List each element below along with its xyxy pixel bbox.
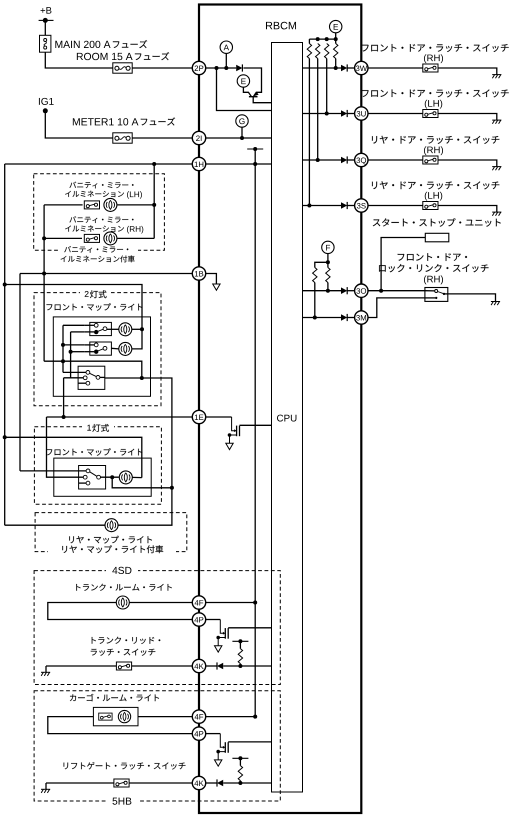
- vanity mirror dashed box: [34, 174, 165, 250]
- wire vanity feed vertical: [43, 205, 45, 361]
- junction 1-lamp output: [110, 475, 114, 479]
- wire Q1 base to CPU: [253, 97, 271, 103]
- wire 1B to ground arrow: [205, 274, 216, 285]
- rail tap pullup Q3: [232, 639, 248, 643]
- wire row2 lower: [71, 351, 85, 353]
- wire A to 2P wire: [225, 53, 227, 68]
- fusible link MAIN 200A: [40, 35, 51, 52]
- wire row1 upper: [63, 324, 85, 326]
- node IG1: [39, 98, 54, 105]
- junction 1H rail: [253, 162, 257, 166]
- vanity LH bulb: [104, 198, 117, 211]
- junction bus r4: [334, 37, 338, 41]
- wire 4K to diode: [205, 665, 217, 667]
- diode to 3W: [341, 64, 347, 71]
- wire bulb to feed 2: [132, 476, 142, 478]
- resistor R6 pullup 3O: [327, 262, 329, 267]
- label front door lock link 2: [379, 264, 488, 272]
- lock link switch box: [425, 288, 448, 302]
- ground arrow 1B: [213, 284, 220, 290]
- 1-lamp dashed box: [34, 427, 161, 505]
- wire map feed 1: [5, 285, 142, 330]
- label フロント・ドア・ラッチ・スイッチ: [362, 89, 509, 97]
- internal rail wire down to 4F: [254, 164, 256, 717]
- wire CPU to pin 3S: [303, 205, 342, 207]
- wire switch to ground: [438, 206, 497, 213]
- wire pin 1H to CPU: [205, 163, 271, 165]
- wire switch to ground: [438, 68, 497, 75]
- label (LH): [425, 100, 442, 109]
- pin 4F second: [192, 710, 205, 723]
- junction 2P-a: [215, 66, 219, 70]
- diode to 3O: [341, 287, 347, 294]
- bulb map row2: [119, 342, 132, 355]
- ground liftgate switch: [45, 783, 47, 789]
- wire commons to big switch: [63, 371, 88, 373]
- wire E to transistor: [243, 87, 251, 96]
- wire latch switch to 4K: [132, 665, 193, 667]
- wire pin 2P internal: [205, 67, 236, 69]
- label MAIN fuse katakana: [113, 40, 147, 48]
- 2-lamp dashed box: [34, 293, 161, 406]
- wire map feed 2: [5, 437, 142, 477]
- wire 4P to MOSFET Q4: [205, 733, 220, 735]
- label cargo room light: [70, 694, 159, 701]
- wire liftgate switch to 4K: [129, 782, 193, 784]
- left rail wire A: [4, 164, 6, 525]
- label METER1 fuse katakana: [141, 117, 175, 125]
- wire 3S to switch: [368, 205, 423, 207]
- wire 3O to lock link switch: [368, 290, 425, 292]
- vanity RH bulb: [104, 232, 117, 245]
- junction R3-3U: [325, 112, 329, 116]
- wire rail tap down: [254, 149, 256, 164]
- wire row1 lower: [71, 331, 85, 333]
- resistor R7 pullup: [239, 641, 241, 648]
- wire IG1 to pin 2I: [45, 111, 192, 138]
- junction door contacts row2: [69, 350, 73, 354]
- wire 3M to lock link switch: [368, 298, 425, 318]
- junction feed row1: [140, 327, 144, 331]
- junction 2P-b: [224, 66, 228, 70]
- CPU block U1: [272, 43, 303, 793]
- wire CPU to pin 3W: [303, 67, 342, 69]
- wire rail A to rear lamp: [5, 524, 105, 526]
- label front map light: [46, 303, 142, 310]
- junction rail A map feed 2: [3, 435, 7, 439]
- wire 1E to 1-lamp switch: [47, 417, 86, 477]
- wire 1B feed to switch: [44, 361, 142, 378]
- 1-lamp switch unused stub: [79, 482, 87, 484]
- bulb rear map light: [105, 519, 118, 532]
- junction R2-3Q: [316, 158, 320, 162]
- wire R2 to 3Q line: [317, 59, 319, 161]
- transistor Q1 base bar: [249, 96, 258, 98]
- wire row2 upper: [63, 344, 85, 346]
- wire 1E to MOSFET: [205, 416, 231, 418]
- junction vanity 1B: [42, 272, 46, 276]
- node G circled: [236, 115, 248, 127]
- wire feed down to row2: [132, 329, 142, 349]
- big switch 2-lamp: [78, 366, 105, 389]
- wire row2 to bulb: [111, 347, 118, 350]
- junction R6-3O: [326, 289, 330, 293]
- latch switch cargo: [99, 713, 112, 720]
- ground lock link: [491, 302, 500, 306]
- bulb cargo room light: [118, 710, 130, 722]
- junction pullup 4K second: [238, 781, 242, 785]
- wire rear lamp right: [118, 488, 172, 525]
- pin 2I: [192, 131, 205, 144]
- ground: [492, 212, 501, 216]
- wire F bus left: [315, 262, 328, 267]
- pin 1H: [192, 157, 205, 170]
- fuse ROOM 15A: [113, 63, 132, 73]
- wire row1 upper entry: [85, 324, 95, 326]
- 5HB dashed box: [34, 691, 280, 801]
- pin 4P second: [192, 727, 205, 740]
- label vanity mirror RH 1: [69, 216, 133, 223]
- node +B battery terminal: [41, 7, 52, 14]
- 1-lamp inner box: [54, 458, 151, 496]
- label vanity mirror LH 2: [65, 191, 124, 197]
- wire 4K second to diode: [205, 782, 217, 784]
- bulb map row1: [119, 323, 132, 336]
- door latch switch: [423, 64, 438, 72]
- fuse METER1 10A: [113, 133, 132, 143]
- RBCM module box: [199, 5, 361, 814]
- pin 3Q: [355, 153, 368, 166]
- pin 3S: [355, 199, 368, 212]
- wire ground to liftgate switch: [46, 782, 114, 784]
- wire Q4 gate to CPU: [228, 741, 271, 743]
- wire door line down to 1E: [63, 378, 65, 417]
- resistor R2 pullup 3Q: [316, 44, 320, 59]
- diode to 3S: [341, 202, 347, 209]
- label 4SD: [112, 567, 131, 574]
- pin 4K second: [192, 776, 205, 789]
- label rear map light caption: [62, 545, 163, 553]
- wire R6 to 3O line: [327, 283, 329, 291]
- rear map dashed box: [35, 513, 187, 552]
- wire Q2 gate to CPU: [240, 424, 272, 426]
- label liftgate latch switch: [64, 762, 186, 770]
- wire diode to CPU: [223, 665, 271, 667]
- door latch switch: [423, 110, 438, 118]
- ground: [492, 167, 501, 171]
- wire switch to ground: [438, 160, 497, 167]
- label (RH): [424, 54, 443, 63]
- resistor R3 pullup 3U: [325, 44, 329, 59]
- node F circled: [322, 241, 334, 253]
- label front door lock link RH: [424, 275, 443, 284]
- wire door contacts vertical: [70, 332, 72, 378]
- junction big switch output: [140, 376, 144, 380]
- junction R1-3S: [307, 204, 311, 208]
- wire pin 2I to CPU: [205, 137, 271, 139]
- wire 4F second to rail end: [205, 716, 255, 718]
- diode D2 into 4K: [217, 662, 223, 669]
- pin 3M: [355, 311, 368, 324]
- wire G to 2I wire: [241, 127, 243, 138]
- junction 3O unit: [379, 289, 383, 293]
- junction 4F rail: [253, 601, 257, 605]
- diode to 3M: [341, 314, 347, 321]
- map switch row1: [90, 322, 112, 335]
- junction bus r3: [325, 37, 329, 41]
- wire bulb row1 to feed: [132, 328, 142, 330]
- label vanity mirror LH 1: [69, 182, 133, 189]
- resistor R8 pullup: [239, 758, 241, 765]
- junction vanity rows: [152, 203, 156, 207]
- wire 1B feed down: [19, 274, 21, 471]
- resistor R5 pullup 3M: [313, 268, 317, 283]
- latch switch liftgate: [114, 779, 129, 787]
- pin 2P: [192, 61, 205, 74]
- wire row1 to bulb: [107, 328, 119, 330]
- junction F: [326, 260, 330, 264]
- wire trunk bulb to 4F: [129, 602, 192, 604]
- wire R3 to 3U line: [326, 59, 328, 114]
- junction commons 1B feed: [61, 359, 65, 363]
- ground: [492, 75, 501, 79]
- wire +B to fuse: [44, 20, 46, 35]
- MOSFET Q4: [215, 734, 229, 767]
- junction rail A map feed: [3, 283, 7, 287]
- wire R4 to 3W line: [335, 59, 337, 69]
- wire E to resistor bus: [335, 33, 337, 44]
- junction vanity RH: [42, 236, 46, 240]
- label (RH): [424, 146, 443, 155]
- node E circled (top): [237, 75, 249, 87]
- wire cargo unit to 4F: [138, 716, 193, 718]
- wire row2 entries: [85, 344, 95, 346]
- door latch switch: [423, 156, 438, 164]
- vanity LH switch: [84, 201, 99, 209]
- diode D3 into 4K second: [217, 779, 223, 786]
- diode D1: [236, 64, 242, 71]
- wire pin 1E left: [47, 416, 193, 418]
- start stop unit box: [425, 233, 449, 242]
- vanity RH switch: [84, 234, 99, 242]
- MOSFET Q3: [215, 620, 229, 653]
- label vanity caption 2: [61, 255, 135, 262]
- cargo lamp unit box: [93, 707, 138, 725]
- node A circled: [220, 41, 232, 53]
- ground: [492, 120, 501, 124]
- wire CPU to pin 3U: [303, 113, 342, 115]
- junction commons row2: [61, 343, 65, 347]
- wire vanity RH row: [44, 237, 82, 239]
- wire 2P branch to CPU: [217, 68, 272, 111]
- pin 1E: [192, 410, 205, 423]
- wire 1-lamp switch output: [101, 476, 119, 478]
- resistor R1 pullup 3S: [308, 39, 310, 43]
- wire pin 1B: [20, 273, 193, 275]
- resistor bus wire: [309, 38, 335, 40]
- junction R5-3M: [313, 316, 317, 320]
- label 1-lamp type: [87, 424, 109, 432]
- wire 1-lamp output down: [112, 477, 172, 488]
- wire vanity LH row: [44, 204, 83, 206]
- wire trunk bulb to 4P: [48, 603, 193, 620]
- wire 1B feed to 1-lamp switch: [20, 470, 88, 472]
- label vanity caption 1: [64, 246, 128, 253]
- wire CPU to pin 3M: [303, 317, 342, 319]
- wire 3Q to switch: [368, 159, 423, 161]
- wire F down: [327, 254, 329, 263]
- resistor R4 pullup 3W: [334, 44, 338, 59]
- wire Q3 gate to CPU: [228, 627, 271, 629]
- door latch switch: [423, 202, 438, 210]
- wire 4P to MOSFET Q3: [205, 619, 220, 621]
- wire CPU to pin 3Q: [303, 159, 342, 161]
- junction G-2I: [240, 136, 244, 140]
- 2-lamp inner box: [53, 317, 150, 396]
- junction rail end: [253, 715, 257, 719]
- label trunk lid latch 1: [92, 637, 161, 644]
- label trunk room light: [76, 584, 172, 591]
- wire R5 to 3M line: [314, 283, 316, 318]
- 4SD dashed box: [34, 571, 280, 685]
- diode to 3U: [341, 110, 347, 117]
- big switch 1-lamp: [79, 466, 106, 490]
- wire diode to transistor collector: [243, 68, 261, 96]
- ground trunk lid switch: [45, 666, 47, 672]
- wire diode to CPU second: [223, 782, 271, 784]
- pin 4P: [192, 613, 205, 626]
- wire CPU to pin 3O: [303, 290, 342, 292]
- label フロント・ドア・ラッチ・スイッチ: [362, 44, 509, 52]
- pin 4K: [192, 659, 205, 672]
- diode to 3Q: [341, 156, 347, 163]
- label リヤ・ドア・ラッチ・スイッチ: [372, 136, 499, 144]
- label 2-lamp type: [85, 290, 107, 298]
- label front map light 2: [46, 448, 142, 455]
- wire door contact to big switch: [64, 377, 86, 379]
- junction rear lamp line: [170, 486, 174, 490]
- label start stop unit: [373, 218, 501, 226]
- label ROOM fuse katakana: [135, 52, 169, 60]
- pin 4F: [192, 596, 205, 609]
- node E circled (right): [330, 20, 342, 32]
- wire R1 to 3S line: [308, 59, 310, 206]
- rail tap above 1H: [247, 147, 263, 151]
- bulb trunk room light: [116, 596, 129, 609]
- rail tap pullup Q4: [232, 756, 248, 760]
- big switch unused stub: [78, 382, 86, 384]
- wire cargo unit to 4P: [48, 717, 193, 734]
- wire start stop unit to 3O: [381, 238, 425, 291]
- junction bus r2: [316, 37, 320, 41]
- label 5HB: [112, 798, 131, 805]
- label trunk lid latch 2: [91, 649, 156, 656]
- wire ground to latch switch: [46, 665, 117, 667]
- pin 3U: [355, 107, 368, 120]
- junction 1H vanity: [152, 162, 156, 166]
- label vanity mirror RH 2: [65, 225, 124, 231]
- wire 4F to rail: [205, 602, 255, 604]
- wire pin 1H to left rail: [5, 163, 193, 165]
- wire vanity right vertical: [153, 164, 155, 238]
- map switch row2: [90, 342, 112, 355]
- wire fuse to pin 2P: [45, 52, 192, 68]
- pin 3W: [355, 61, 368, 74]
- latch switch trunk lid: [116, 662, 131, 670]
- label rear map light: [69, 536, 152, 544]
- label (LH): [425, 192, 442, 201]
- pin 3O: [355, 284, 368, 297]
- label front door lock link 1: [398, 253, 467, 261]
- wire switch commons vertical: [62, 325, 64, 372]
- wire lock link switch to ground: [444, 293, 448, 295]
- label リヤ・ドア・ラッチ・スイッチ: [372, 181, 499, 189]
- junction pullup 4K: [238, 664, 242, 668]
- MOSFET Q2: [226, 417, 240, 450]
- bulb map 1-lamp: [119, 471, 132, 484]
- wire 3W to switch: [368, 67, 423, 69]
- junction 1E door line: [62, 415, 66, 419]
- wire switch to ground: [438, 114, 497, 121]
- junction R4-3W: [334, 66, 338, 70]
- wire 3U to switch: [368, 113, 423, 115]
- wire big switch output: [100, 376, 105, 378]
